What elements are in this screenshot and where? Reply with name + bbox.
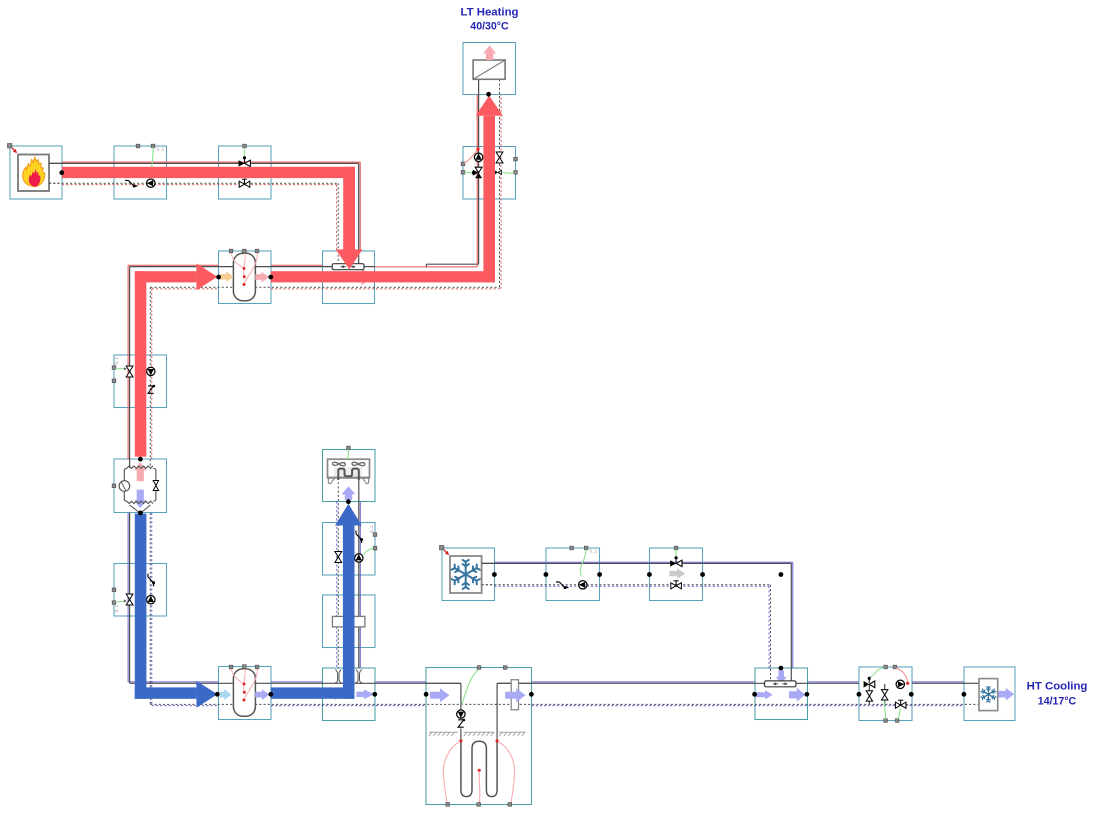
wire: cold return dashed left column <box>149 513 151 705</box>
control wire B19 <box>675 550 677 557</box>
balancing valve B19 <box>671 581 682 589</box>
control valve B21 <box>864 681 875 688</box>
header low-loss B7 <box>332 264 364 270</box>
handle B12 <box>347 446 351 450</box>
boiler box B1 <box>10 146 62 199</box>
handle T2 a <box>229 665 233 669</box>
small valve B4 <box>495 170 498 174</box>
sensor dot B21 <box>906 682 909 685</box>
wire: chiller port stubs <box>482 562 495 564</box>
junction fitting right B15 <box>355 670 362 683</box>
control valve B19 <box>670 560 682 566</box>
stem B3 <box>244 158 246 163</box>
flow band: row2 tank to LT riser <box>271 271 495 282</box>
dry cooler fan left <box>332 462 345 465</box>
isolation valve B8 <box>126 366 133 377</box>
pump P4 B10 <box>147 596 155 604</box>
wire: pump to borehole link <box>460 729 462 741</box>
header box B7 <box>323 251 375 304</box>
radiator heat arrow <box>483 45 496 60</box>
control wire B4 left <box>465 171 473 173</box>
handle T2 b <box>243 665 247 669</box>
LT radiator box B5 <box>463 43 516 95</box>
condenser heat arrow B9 <box>134 462 147 481</box>
borehole U-tube serpentine <box>461 741 497 797</box>
svg-text:0..1: 0..1 <box>590 549 598 554</box>
svg-text:0..1: 0..1 <box>114 604 119 612</box>
chiller box B17 <box>442 548 495 601</box>
flow arrow out of tank T1 <box>255 272 269 283</box>
control wire B18 <box>580 550 586 577</box>
handle T1 c <box>255 249 259 253</box>
control wire B21 a <box>870 668 885 677</box>
control wire B2 <box>152 148 153 168</box>
flow switch B2 <box>125 180 137 187</box>
wire: ground loop left leg <box>426 682 461 684</box>
balancing valve B3 <box>239 179 250 187</box>
handle B2 a <box>136 144 140 148</box>
heat pump box B9 <box>114 459 167 513</box>
flow band: heat pump cold drop <box>135 514 147 699</box>
wire: row2 return red dashed companion <box>152 288 219 290</box>
compressor B9 <box>119 481 130 492</box>
flow switch B18 <box>556 582 568 589</box>
flow arrow B20 left <box>756 690 773 699</box>
handle B16 bot c <box>508 803 512 807</box>
balancing valve B21 <box>895 700 906 708</box>
header low-loss B20 <box>765 681 797 687</box>
wire: cold drop blue companion <box>127 513 129 682</box>
wire: row2 supply solid <box>130 266 234 268</box>
wire: heat pump port links <box>129 459 131 468</box>
flow band: drop to header <box>343 167 355 250</box>
control wire B16 <box>462 669 479 706</box>
wire: bottom row supply solid <box>255 682 330 684</box>
pump P7 B18 <box>579 581 587 589</box>
handle B16 top b <box>503 666 507 670</box>
svg-text:14/17°C: 14/17°C <box>1038 696 1077 708</box>
wire: boiler port stubs <box>49 162 62 164</box>
radiator symbol <box>473 60 505 79</box>
node: dry cooler inlet <box>346 499 351 504</box>
header box B20 <box>755 668 808 720</box>
handle T2 c <box>255 665 259 669</box>
hot valve group box B8 <box>114 355 167 408</box>
flow arrow B16 right <box>505 688 525 702</box>
wire: boiler supply red companion <box>62 161 360 163</box>
handle B10 a <box>112 588 116 592</box>
valve B4 return <box>496 152 503 163</box>
pump P5 B13 <box>355 554 363 562</box>
node: tank T2 left <box>215 692 220 697</box>
control dot B19 <box>675 556 678 559</box>
cold valve group box B10 <box>114 564 167 617</box>
chiller valve group box B19 <box>650 548 703 601</box>
flow arrow down into header B20 <box>776 670 787 684</box>
flow arrowhead into header <box>336 249 363 269</box>
handle B21 bot a <box>884 719 888 723</box>
wire: bottom row return dashed <box>150 703 234 705</box>
svg-text:40/30°C: 40/30°C <box>470 21 509 33</box>
zero flow arrow B19 <box>670 568 686 578</box>
wire: chiller supply blue companion <box>495 561 793 563</box>
dry cooler heat arrow <box>341 486 355 500</box>
control wire B21 b <box>884 702 885 720</box>
wire: dry cooler supply blue companion <box>359 502 361 617</box>
node: tank T2 right <box>268 692 273 697</box>
handle B4 left a <box>461 162 465 166</box>
handle B8 a <box>112 366 116 370</box>
wire: chiller return dashed <box>482 584 771 586</box>
flow arrow out of header B7 <box>357 269 374 286</box>
handle B3 <box>243 144 247 148</box>
wire: bypass stubs B21 <box>868 684 870 704</box>
node: heat pump bottom <box>138 511 143 516</box>
svg-text:0..1: 0..1 <box>157 147 165 152</box>
isolation valve B13 <box>335 552 342 563</box>
three-way valve dot B4 <box>472 171 475 174</box>
boiler flame icon <box>23 157 45 186</box>
flow switch B13 <box>356 531 363 543</box>
handle B4 right b <box>514 171 518 175</box>
sensor dot B4 <box>476 148 479 151</box>
handle B16 top a <box>477 666 481 670</box>
control wire B21 c <box>898 709 901 720</box>
node: LT radiator inlet <box>486 92 491 97</box>
cold buffer tank box B11 <box>219 667 272 720</box>
boiler inner frame <box>18 155 49 192</box>
handle B21 bot b <box>895 719 899 723</box>
dry cooler fan right <box>352 462 365 465</box>
HT load snowflake icon <box>981 687 996 702</box>
bypass valve B21 a <box>866 691 872 701</box>
handle B18 a <box>570 546 574 550</box>
sensor wire B21 <box>896 668 908 682</box>
node: valve group B19 left <box>647 572 652 577</box>
node: HT load inlet <box>962 692 967 697</box>
pump P2 B4 <box>474 153 482 161</box>
wire: chiller return blue dashed companion <box>495 585 770 587</box>
wire: chiller supply solid <box>482 562 792 564</box>
wire: dry cooler supply solid column <box>358 478 360 669</box>
ground surface hatching <box>429 732 432 736</box>
flow band: LT heating riser <box>483 116 495 283</box>
control valve B3 <box>239 160 251 166</box>
HT load inner frame <box>979 679 998 711</box>
borehole sensor dot mid <box>478 769 481 772</box>
wire arrowhead B8 <box>124 367 127 370</box>
handle B21 top b <box>893 665 897 669</box>
handle T1 a <box>229 249 233 253</box>
node: tank T1 right <box>268 275 273 280</box>
svg-text:0..1: 0..1 <box>369 525 374 533</box>
handle B16 bot b <box>477 803 481 807</box>
control wire B13 <box>364 548 374 554</box>
flow arrow out B15 <box>356 690 374 700</box>
handle B4 left b <box>461 171 465 175</box>
node: chiller outlet <box>492 572 497 577</box>
wire: hot riser solid left column <box>129 267 131 460</box>
bypass valve B21 b <box>882 690 888 700</box>
cold buffer tank T2 <box>231 667 257 716</box>
dry cooler coil tube <box>338 469 359 480</box>
wire: boiler return dashed row1 <box>49 182 338 184</box>
wire: LT return drop dashed <box>499 79 501 147</box>
flow arrow into tank T1 <box>220 271 234 282</box>
wire: boiler return red dashed companion <box>62 184 337 186</box>
control dot B21 <box>868 677 871 680</box>
node: chiller branch corner <box>779 572 784 577</box>
dry cooler pump group box B13 <box>323 523 376 576</box>
handle B16 bot a <box>446 803 450 807</box>
node: pump group B18 right <box>597 572 602 577</box>
handle B18 b <box>584 546 588 550</box>
wire: row2 supply red companion <box>128 264 218 266</box>
HT cooling load box B22 <box>964 667 1015 721</box>
pump P3 B8 <box>147 367 155 375</box>
flow band: row2 into tank <box>135 271 197 282</box>
handle B4 right a <box>514 157 518 161</box>
evaporator heat arrow B9 <box>134 490 147 509</box>
wire: LT supply riser <box>478 147 480 199</box>
node: header B20 left <box>752 692 757 697</box>
dry cooler feet <box>328 478 334 484</box>
stem B19 <box>675 558 677 562</box>
flow arrow B20 right <box>789 688 805 702</box>
node: header B20 right <box>805 692 810 697</box>
stem B21 <box>868 678 870 682</box>
sensor wire B4 <box>464 150 477 164</box>
wire: hot riser red companion <box>127 265 129 459</box>
dry cooler body <box>328 459 370 478</box>
junction box B15 <box>323 668 376 721</box>
flow band: boiler supply row1 <box>62 167 355 178</box>
chiller pump group box B18 <box>546 548 600 601</box>
node: tank T1 left <box>216 275 221 280</box>
node: valve group B21 right <box>909 692 914 697</box>
control wire B4 right <box>503 172 515 173</box>
heat pump refrigerant loop <box>124 466 156 504</box>
junction fitting left B15 <box>335 670 342 683</box>
flow band: bottom row into tank T2 <box>135 687 197 698</box>
handle B9 <box>112 484 116 488</box>
borehole sensor wire right <box>498 742 515 803</box>
borehole sensor wire left <box>443 742 460 803</box>
node: boiler outlet <box>59 170 64 175</box>
flow arrowhead into LT radiator <box>476 96 503 116</box>
handle B13 a <box>373 533 377 537</box>
node: header B20 top <box>779 666 784 671</box>
handle B10 b <box>112 601 116 605</box>
flow arrowhead into dry cooler <box>335 504 362 526</box>
flow switch B10 <box>148 574 155 586</box>
control wire B8 <box>116 368 126 370</box>
node: pump group B18 left <box>544 572 549 577</box>
handle B19 <box>674 546 678 550</box>
wire: hot return dashed left column <box>149 287 151 459</box>
wire: row2 return dashed <box>150 286 234 288</box>
handle T1 b <box>243 249 247 253</box>
handle B2 b <box>151 144 155 148</box>
flow arrow hidden B15 <box>328 689 342 700</box>
pump P6 B16 <box>457 710 465 718</box>
svg-text:HT Cooling: HT Cooling <box>1027 680 1088 692</box>
valve group box B3 <box>219 146 272 199</box>
node: ground loop right <box>529 692 534 697</box>
control wire B3 <box>244 148 246 157</box>
wire: dry cooler return blue dashed companion <box>336 502 338 617</box>
svg-text:0..1: 0..1 <box>114 356 119 364</box>
plate heat exchanger box B14 <box>323 595 376 648</box>
dry cooler box B12 <box>323 450 376 502</box>
handle B21 top a <box>884 665 888 669</box>
cooling load arrow B22 <box>998 688 1014 701</box>
flow arrow B16 left <box>430 688 449 702</box>
borehole sensor wire mid <box>478 772 481 803</box>
limiter symbol B8 <box>148 385 155 393</box>
selection marker boiler <box>8 144 18 154</box>
LT pump-valve group box B4 <box>463 147 516 200</box>
expansion valve B9 <box>153 481 158 491</box>
control dot B3 <box>243 156 246 159</box>
flow arrowhead into tank T2 <box>196 681 217 708</box>
wire: boiler supply solid row1 <box>49 162 359 164</box>
pump P1 B2 <box>147 179 155 187</box>
borehole sensor dot left <box>459 739 462 742</box>
buffer tank box B6 <box>219 251 272 304</box>
limiter symbol B16 <box>458 719 465 728</box>
buffer tank T1 <box>231 252 257 301</box>
HT valve group box B21 <box>859 667 912 721</box>
node: valve group B19 right <box>700 572 705 577</box>
node: junction outlet <box>372 692 377 697</box>
control wire B12 <box>347 450 349 460</box>
isolation valve B10 <box>126 594 133 605</box>
wire arrowhead B10 <box>124 600 127 603</box>
flow arrow out of tank T2 <box>255 689 269 700</box>
ground strainer B16 <box>511 680 518 710</box>
wire: bottom row blue companion <box>271 681 323 683</box>
flow band: tank T2 to dry cooler riser <box>271 687 355 698</box>
wire: cold drop solid left column <box>129 513 131 683</box>
chiller inner frame <box>450 556 482 593</box>
ground loop box B16 <box>426 668 532 805</box>
node: valve group B21 left <box>857 692 862 697</box>
chiller snowflake icon <box>452 560 480 589</box>
svg-text:LT Heating: LT Heating <box>460 6 518 18</box>
flow band: heat pump hot riser <box>135 271 147 457</box>
three-way valve B4 <box>473 167 482 178</box>
node: ground loop left <box>424 692 429 697</box>
node: heat pump top <box>138 457 143 462</box>
pump group box B2 <box>114 146 167 199</box>
wire: dry cooler return dashed column <box>337 478 339 669</box>
flow band: dry cooler riser <box>343 526 355 699</box>
wire: bottom row blue dashed companion <box>152 705 219 707</box>
plate heat exchanger symbol <box>332 616 365 627</box>
selection marker chiller <box>440 546 450 556</box>
wire: cold return blue dashed companion <box>151 513 153 706</box>
control wire B10 <box>116 600 126 603</box>
handle B13 b <box>373 546 377 550</box>
wire: ground loop right leg <box>497 682 531 684</box>
pump P8 B21 <box>896 680 904 688</box>
borehole sensor dot right <box>496 739 499 742</box>
flow arrowhead into tank T1 <box>196 263 217 290</box>
wire: hot return red dashed companion <box>151 289 153 459</box>
handle B8 b <box>112 379 116 383</box>
flow arrow into tank T2 <box>220 689 232 700</box>
